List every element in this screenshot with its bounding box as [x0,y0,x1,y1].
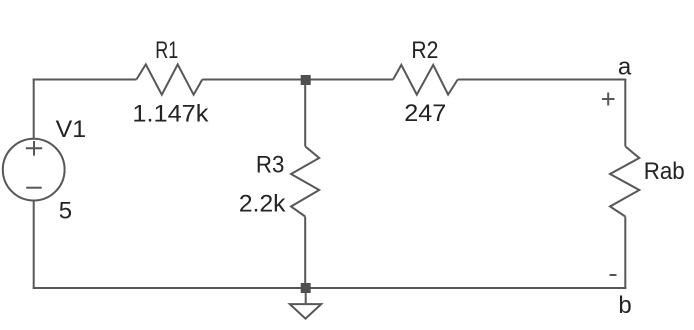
junction bottom node [301,283,311,293]
svg-text:247: 247 [404,100,446,127]
minus label at node b [610,274,617,276]
wire right vertical upper [624,79,626,147]
svg-text:1.147k: 1.147k [132,101,209,128]
plus label at node a [602,93,615,106]
svg-text:V1: V1 [56,116,87,143]
svg-text:b: b [618,292,631,319]
resistor R3 [291,146,319,216]
svg-text:R2: R2 [411,37,438,64]
wire R2 to node a [458,79,627,81]
V1 plus sign [26,141,42,156]
svg-text:R3: R3 [256,152,285,179]
resistor R2 [393,65,458,95]
junction top node [301,75,311,85]
svg-text:2.2k: 2.2k [239,191,287,218]
wire left vertical upper [33,79,35,140]
wire left vertical lower [33,200,35,289]
wire bottom node to ground [305,288,307,304]
svg-text:R1: R1 [155,37,178,64]
V1 minus sign [26,187,42,189]
voltage source V1 [3,139,65,201]
ground [290,304,321,319]
wire node to R3 [304,80,306,147]
wire right vertical lower [624,217,626,290]
resistor R1 [136,64,202,94]
wire R3 to bottom node [304,217,306,289]
svg-text:Rab: Rab [644,158,685,185]
svg-text:a: a [618,54,632,81]
wire R1 to R2 [202,79,393,81]
resistor Rab [610,146,639,216]
svg-text:5: 5 [59,198,72,225]
wire bottom [33,287,627,289]
wire top from V1 to R1 [33,79,137,81]
